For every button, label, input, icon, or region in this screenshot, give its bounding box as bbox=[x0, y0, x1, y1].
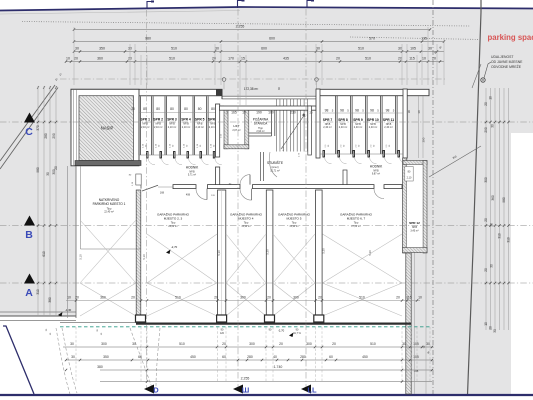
dotted setback line bbox=[22, 22, 470, 27]
svg-text:30: 30 bbox=[407, 110, 411, 114]
svg-text:20: 20 bbox=[432, 57, 436, 61]
plot boundary dashed line x=433 bbox=[432, 0, 434, 394]
svg-text:20: 20 bbox=[75, 296, 79, 300]
svg-text:3,45 m²: 3,45 m² bbox=[410, 229, 418, 232]
svg-text:30: 30 bbox=[493, 329, 497, 333]
svg-text:20: 20 bbox=[267, 296, 271, 300]
gridline B horizontal bbox=[0, 225, 533, 227]
right vertical dimension lines bbox=[485, 88, 487, 330]
leader to note text bbox=[484, 62, 491, 78]
svg-text:290: 290 bbox=[422, 137, 426, 142]
bottom-left road diagonal bbox=[3, 326, 34, 394]
svg-text:22,40 m²: 22,40 m² bbox=[104, 211, 114, 214]
svg-text:5,30: 5,30 bbox=[368, 250, 372, 256]
svg-text:30: 30 bbox=[426, 342, 430, 346]
faint parallel road line bbox=[0, 11, 240, 15]
svg-text:D: D bbox=[153, 386, 159, 395]
axis bubble east bbox=[315, 78, 319, 82]
staircase right wall bbox=[308, 106, 312, 155]
garage top wall segments bbox=[173, 185, 196, 189]
svg-text:370: 370 bbox=[36, 125, 40, 131]
room SPR12 right wall (hatched) bbox=[423, 161, 427, 254]
svg-text:parking spac: parking spac bbox=[488, 33, 533, 42]
SPR7-11 door leafs bbox=[323, 151, 325, 158]
X braces stall 2-3 bbox=[147, 234, 217, 283]
X braces stall 6-7 bbox=[323, 234, 403, 283]
building north wall west part bbox=[71, 89, 222, 95]
svg-text:98: 98 bbox=[370, 109, 374, 113]
svg-text:SPR 5: SPR 5 bbox=[195, 118, 205, 122]
dotted line right segment bbox=[350, 37, 481, 40]
svg-text:2,10 m²: 2,10 m² bbox=[195, 126, 204, 129]
svg-text:510: 510 bbox=[171, 47, 177, 51]
stair handrail curve bbox=[269, 152, 277, 177]
SPR room divider wall 2 bbox=[151, 96, 153, 155]
right retaining wall lower (hatched) bbox=[406, 253, 411, 394]
svg-text:60: 60 bbox=[222, 355, 226, 359]
elevation flag axis L bbox=[307, 1, 314, 9]
svg-text:MJESTO 4: MJESTO 4 bbox=[238, 216, 253, 220]
staircase treads bbox=[276, 111, 278, 152]
bottom navy border line bbox=[0, 394, 533, 396]
left small arrows top bbox=[37, 86, 39, 89]
small wall right corridor bbox=[343, 170, 347, 186]
svg-text:Ш: Ш bbox=[242, 386, 250, 395]
svg-text:20: 20 bbox=[489, 326, 493, 330]
axis marker A bbox=[24, 274, 35, 284]
nasip block walls bbox=[71, 89, 139, 166]
svg-text:980: 980 bbox=[145, 37, 151, 41]
svg-text:2,40 m²: 2,40 m² bbox=[339, 126, 348, 129]
gridline L vertical bbox=[305, 9, 307, 388]
svg-text:610: 610 bbox=[42, 251, 46, 257]
heavy road boundary line right bbox=[468, 0, 482, 395]
svg-text:LL: LL bbox=[307, 386, 317, 395]
svg-text:30: 30 bbox=[316, 47, 320, 51]
svg-text:2,10 m²: 2,10 m² bbox=[182, 126, 191, 129]
svg-text:510: 510 bbox=[365, 57, 371, 61]
elevation flag axis D bbox=[147, 2, 154, 10]
svg-text:10: 10 bbox=[418, 296, 422, 300]
svg-text:360: 360 bbox=[491, 195, 495, 201]
bottom dim row 2.255 bbox=[100, 381, 432, 383]
svg-text:135: 135 bbox=[421, 37, 427, 41]
svg-text:10: 10 bbox=[66, 57, 70, 61]
SPR7-11 divider wall 1 bbox=[350, 96, 352, 154]
svg-text:2,94 m²: 2,94 m² bbox=[256, 130, 264, 133]
svg-text:5,30: 5,30 bbox=[322, 248, 326, 254]
left vertical dimension lines bbox=[37, 86, 39, 316]
svg-text:5,30: 5,30 bbox=[266, 249, 270, 255]
svg-text:2,10 m²: 2,10 m² bbox=[168, 126, 177, 129]
svg-text:30: 30 bbox=[491, 124, 495, 128]
svg-text:STUBIŠTE: STUBIŠTE bbox=[267, 160, 284, 165]
svg-text:98: 98 bbox=[340, 109, 344, 113]
svg-text:300: 300 bbox=[240, 296, 246, 300]
svg-text:SPR 2: SPR 2 bbox=[153, 118, 163, 122]
svg-text:LIFT: LIFT bbox=[233, 124, 239, 128]
svg-text:SPR 10: SPR 10 bbox=[367, 118, 379, 122]
svg-text:600: 600 bbox=[269, 37, 275, 41]
gray site area: right band bbox=[407, 86, 511, 394]
svg-text:20: 20 bbox=[212, 57, 216, 61]
svg-text:80: 80 bbox=[277, 87, 281, 90]
svg-text:5,10: 5,10 bbox=[142, 254, 146, 260]
svg-text:ODVODNE MREŽE: ODVODNE MREŽE bbox=[491, 64, 522, 69]
svg-text:41,7 %: 41,7 % bbox=[293, 332, 301, 335]
diagonal plot boundary left bbox=[0, 85, 55, 161]
bottom dim row 1.740 bbox=[100, 369, 432, 371]
svg-text:280: 280 bbox=[44, 133, 48, 139]
svg-text:1.740: 1.740 bbox=[274, 365, 283, 369]
door arc stubiste (to corridor) bbox=[240, 175, 250, 185]
svg-text:408: 408 bbox=[186, 194, 191, 197]
svg-text:360: 360 bbox=[100, 296, 106, 300]
svg-text:MJESTO 6, 7: MJESTO 6, 7 bbox=[347, 216, 366, 220]
elevation flag axis S bbox=[238, 1, 245, 9]
svg-text:Tlpp: Tlpp bbox=[354, 222, 359, 224]
svg-text:80: 80 bbox=[184, 107, 188, 111]
svg-text:30: 30 bbox=[70, 342, 74, 346]
SPR12 door notch bbox=[405, 167, 413, 182]
svg-text:165: 165 bbox=[231, 110, 237, 114]
svg-text:20: 20 bbox=[484, 268, 488, 272]
svg-text:300: 300 bbox=[249, 342, 255, 346]
svg-text:20: 20 bbox=[332, 342, 336, 346]
axis marker C bbox=[24, 113, 35, 123]
svg-text:20: 20 bbox=[484, 102, 488, 106]
svg-text:105: 105 bbox=[410, 47, 416, 51]
garage wall W2 bbox=[218, 190, 226, 315]
gridline C horizontal bbox=[0, 121, 533, 123]
axis bubble west bbox=[222, 78, 226, 82]
diagonal leader top right bbox=[472, 64, 481, 88]
svg-text:280: 280 bbox=[247, 355, 253, 359]
svg-text:20: 20 bbox=[318, 296, 322, 300]
top dimension row 3 bbox=[74, 51, 444, 53]
svg-text:A: A bbox=[25, 287, 33, 299]
natkriveno boundary lines bbox=[67, 166, 69, 318]
svg-text:980: 980 bbox=[36, 167, 40, 173]
SPR7-11 divider wall 0 bbox=[335, 96, 337, 154]
SPR room divider wall 6 bbox=[206, 96, 208, 155]
svg-text:20: 20 bbox=[336, 57, 340, 61]
ramp dashed edges bbox=[56, 328, 70, 394]
svg-text:2.255: 2.255 bbox=[236, 25, 245, 29]
svg-text:9,87 m²: 9,87 m² bbox=[372, 173, 380, 176]
svg-text:300: 300 bbox=[101, 342, 107, 346]
svg-text:105: 105 bbox=[413, 342, 419, 346]
building bottom heavy edge bbox=[60, 322, 136, 324]
svg-text:290: 290 bbox=[484, 127, 488, 133]
svg-text:30: 30 bbox=[132, 342, 136, 346]
room SPR12 top wall (hatched) bbox=[403, 161, 427, 165]
svg-text:30: 30 bbox=[398, 47, 402, 51]
svg-text:NASIP: NASIP bbox=[101, 126, 114, 131]
SPR7-11 right wall bbox=[403, 89, 407, 158]
svg-text:510: 510 bbox=[169, 57, 175, 61]
svg-text:5,71 m²: 5,71 m² bbox=[188, 174, 196, 177]
svg-text:-2,70: -2,70 bbox=[171, 245, 178, 249]
svg-text:SPR 7: SPR 7 bbox=[323, 118, 333, 122]
top dim extension verticals bbox=[73, 27, 75, 85]
svg-text:98: 98 bbox=[386, 109, 390, 113]
svg-text:20: 20 bbox=[396, 296, 400, 300]
svg-text:2.255: 2.255 bbox=[241, 376, 250, 380]
SPR room divider wall 4 bbox=[178, 96, 180, 155]
bottom dim row B bbox=[66, 359, 432, 361]
facade jogs bbox=[221, 89, 223, 99]
svg-text:30: 30 bbox=[71, 355, 75, 359]
garage wall W1 (hatched) bbox=[136, 190, 141, 318]
gray site area: far right top bbox=[511, 8, 533, 133]
room SPR12 bottom wall (hatched) bbox=[403, 248, 428, 253]
svg-text:30: 30 bbox=[402, 342, 406, 346]
svg-text:Tlpp: Tlpp bbox=[171, 222, 176, 224]
svg-text:PARKIRNO MJESTO 1: PARKIRNO MJESTO 1 bbox=[93, 202, 126, 206]
svg-text:600: 600 bbox=[261, 47, 267, 51]
svg-text:30: 30 bbox=[75, 47, 79, 51]
svg-text:SPR 11: SPR 11 bbox=[383, 118, 394, 122]
garage inner dimension row bbox=[66, 300, 420, 302]
svg-text:290: 290 bbox=[52, 133, 56, 139]
svg-text:115: 115 bbox=[409, 57, 415, 61]
gridline A horizontal bbox=[0, 282, 533, 284]
driveway band lines right of building bbox=[414, 253, 416, 394]
svg-text:10: 10 bbox=[422, 57, 426, 61]
svg-text:SPR 12: SPR 12 bbox=[409, 221, 420, 225]
door arcs into garage bbox=[196, 189, 207, 200]
nasip left wall inner lines bbox=[72, 89, 74, 166]
diagonal leader 300 bbox=[429, 146, 481, 177]
staircase treads upper bbox=[276, 99, 278, 106]
svg-text:105: 105 bbox=[413, 355, 419, 359]
svg-text:300: 300 bbox=[306, 342, 312, 346]
svg-text:510: 510 bbox=[370, 342, 376, 346]
garage entry door leaf diagonal bbox=[142, 185, 158, 191]
svg-text:Tlpp: Tlpp bbox=[292, 222, 297, 224]
svg-text:510: 510 bbox=[359, 296, 365, 300]
stair lower west wall bbox=[260, 152, 262, 181]
SPR7-11 left wall bbox=[316, 89, 320, 158]
axis marker B bbox=[24, 216, 35, 226]
top dimension row 4 bbox=[66, 61, 444, 63]
svg-text:310: 310 bbox=[507, 237, 511, 243]
svg-text:380: 380 bbox=[97, 365, 103, 369]
svg-text:168: 168 bbox=[160, 192, 165, 195]
right-of-building vertical dim lines bbox=[418, 96, 420, 158]
svg-text:450: 450 bbox=[190, 355, 196, 359]
right retaining wall upper (hatched) bbox=[403, 158, 407, 253]
svg-text:10: 10 bbox=[489, 96, 493, 100]
svg-text:350: 350 bbox=[99, 47, 105, 51]
svg-text:20: 20 bbox=[54, 166, 58, 170]
svg-text:510: 510 bbox=[175, 296, 181, 300]
SPR7-11 divider wall 3 bbox=[380, 96, 382, 154]
svg-text:280: 280 bbox=[300, 355, 306, 359]
svg-text:2,10 m²: 2,10 m² bbox=[141, 126, 150, 129]
gridline D vertical bbox=[146, 10, 148, 388]
svg-text:30: 30 bbox=[417, 110, 421, 114]
svg-text:20: 20 bbox=[131, 296, 135, 300]
svg-text:230: 230 bbox=[290, 110, 296, 114]
svg-text:2,07 m²: 2,07 m² bbox=[232, 129, 240, 132]
gridline S vertical bbox=[237, 9, 239, 388]
svg-text:350: 350 bbox=[103, 355, 109, 359]
svg-text:HODNIK: HODNIK bbox=[186, 166, 199, 170]
svg-text:B: B bbox=[25, 229, 33, 241]
svg-text:80: 80 bbox=[156, 107, 160, 111]
facade alignment dash line bbox=[60, 78, 446, 80]
gray site area: left band bbox=[0, 88, 76, 316]
svg-text:MJESTO 2, 3: MJESTO 2, 3 bbox=[164, 216, 183, 220]
axis marker Ш bottom bbox=[233, 385, 243, 394]
svg-text:15: 15 bbox=[241, 57, 245, 61]
bottom teal dashed line bbox=[60, 326, 430, 328]
nasip bottom wall (solid) bbox=[75, 161, 141, 166]
SPR7-11 bottom edge bbox=[320, 153, 403, 155]
svg-text:40: 40 bbox=[273, 355, 277, 359]
svg-text:2,40 m²: 2,40 m² bbox=[323, 126, 332, 129]
column footings bbox=[136, 315, 146, 322]
room SPR12 interior bbox=[407, 165, 423, 248]
bottom extension verticals bbox=[75, 327, 77, 382]
left plot bottom boundary lines bbox=[0, 311, 76, 313]
svg-text:570: 570 bbox=[369, 37, 375, 41]
road edge (navy top line) bbox=[0, 7, 533, 11]
gray site area: top band bbox=[0, 7, 533, 96]
svg-text:20: 20 bbox=[222, 342, 226, 346]
svg-text:2,40 m²: 2,40 m² bbox=[354, 126, 363, 129]
svg-text:190: 190 bbox=[256, 110, 262, 114]
svg-text:510: 510 bbox=[179, 342, 185, 346]
svg-text:100: 100 bbox=[268, 110, 274, 114]
X braces stall 5 bbox=[273, 234, 315, 283]
svg-text:5,30: 5,30 bbox=[217, 250, 221, 256]
wall corner dark block bbox=[220, 106, 225, 110]
svg-text:C: C bbox=[25, 126, 33, 138]
svg-text:120: 120 bbox=[220, 332, 225, 335]
svg-text:980: 980 bbox=[502, 197, 506, 203]
svg-text:80: 80 bbox=[198, 107, 202, 111]
svg-text:310: 310 bbox=[498, 233, 502, 239]
survey circle marker bbox=[481, 78, 485, 82]
axis marker LL bottom bbox=[301, 385, 311, 394]
svg-text:115: 115 bbox=[406, 296, 412, 300]
svg-text:MJESTO 5: MJESTO 5 bbox=[286, 216, 301, 220]
svg-text:12,71 m²: 12,71 m² bbox=[270, 169, 280, 172]
svg-text:SPR 3: SPR 3 bbox=[167, 118, 177, 122]
recessed facade middle bbox=[222, 96, 317, 99]
svg-text:SPR 4: SPR 4 bbox=[181, 118, 191, 122]
X braces stall 4 bbox=[226, 234, 266, 283]
svg-text:80: 80 bbox=[170, 107, 174, 111]
SPR room divider wall 3 bbox=[164, 96, 166, 155]
building north wall east part bbox=[317, 89, 430, 95]
svg-text:HODNIK: HODNIK bbox=[370, 165, 383, 169]
svg-text:510: 510 bbox=[358, 47, 364, 51]
svg-text:20: 20 bbox=[279, 342, 283, 346]
svg-text:2,40 m²: 2,40 m² bbox=[369, 126, 378, 129]
top dimension row 2 bbox=[74, 41, 444, 43]
garage wall W3 bbox=[266, 190, 273, 315]
svg-text:300: 300 bbox=[484, 177, 488, 183]
SPR1-6 block top line bbox=[139, 95, 220, 97]
svg-text:172,38 m²: 172,38 m² bbox=[244, 87, 258, 91]
lift shaft walls bbox=[224, 110, 228, 149]
axis marker D bottom bbox=[144, 385, 154, 394]
svg-text:310: 310 bbox=[36, 289, 40, 295]
garage wall W4 bbox=[316, 190, 323, 315]
north wall pier block bbox=[216, 90, 222, 96]
stair direction arrow bbox=[281, 114, 305, 149]
svg-text:20: 20 bbox=[214, 296, 218, 300]
svg-text:2,10 m²: 2,10 m² bbox=[154, 126, 163, 129]
svg-text:30: 30 bbox=[46, 172, 50, 176]
svg-text:60: 60 bbox=[138, 355, 142, 359]
svg-text:2,10: 2,10 bbox=[407, 177, 412, 180]
X brace natkriveno bbox=[80, 220, 136, 283]
svg-text:15: 15 bbox=[242, 110, 246, 114]
svg-text:30: 30 bbox=[131, 107, 135, 111]
central block left wall bbox=[216, 104, 220, 157]
svg-text:10: 10 bbox=[67, 296, 71, 300]
svg-text:80: 80 bbox=[211, 107, 215, 111]
svg-text:Tlpp: Tlpp bbox=[244, 222, 249, 224]
svg-text:98: 98 bbox=[355, 109, 359, 113]
nasip hatched fill bbox=[79, 96, 134, 161]
svg-text:30: 30 bbox=[428, 47, 432, 51]
SPR room divider wall 5 bbox=[192, 96, 194, 155]
svg-text:-2,70: -2,70 bbox=[278, 329, 285, 333]
svg-text:300: 300 bbox=[293, 296, 299, 300]
svg-text:30: 30 bbox=[215, 47, 219, 51]
SPR7-11 divider wall 2 bbox=[365, 96, 367, 154]
svg-text:360: 360 bbox=[97, 57, 103, 61]
SPR1-6 door leafs bbox=[147, 152, 149, 159]
SPR7-11 divider wall 4 bbox=[395, 96, 397, 154]
svg-text:170: 170 bbox=[228, 57, 234, 61]
svg-text:5,10: 5,10 bbox=[79, 254, 83, 260]
svg-text:450: 450 bbox=[362, 355, 368, 359]
SPR1-6 bottom edge line bbox=[139, 154, 216, 156]
fire room walls bbox=[249, 109, 275, 111]
bottom dim row A bbox=[140, 346, 432, 348]
svg-text:SPR 8: SPR 8 bbox=[338, 118, 348, 122]
W1 door notch to natkriveno bbox=[136, 174, 141, 185]
svg-text:98: 98 bbox=[325, 109, 329, 113]
svg-text:380: 380 bbox=[48, 297, 52, 303]
central block top wall bbox=[220, 106, 317, 110]
svg-text:30: 30 bbox=[490, 264, 494, 268]
svg-text:20: 20 bbox=[74, 57, 78, 61]
svg-text:435: 435 bbox=[283, 57, 289, 61]
svg-text:SPR 1: SPR 1 bbox=[140, 118, 150, 122]
svg-text:60: 60 bbox=[329, 355, 333, 359]
svg-text:10: 10 bbox=[484, 322, 488, 326]
svg-text:UDALJENOST: UDALJENOST bbox=[491, 55, 513, 59]
svg-text:2,40 m²: 2,40 m² bbox=[384, 126, 393, 129]
SPR room divider wall 1 bbox=[138, 96, 140, 155]
top dimension row 1 (total) bbox=[74, 29, 430, 31]
svg-text:20: 20 bbox=[309, 110, 313, 114]
svg-text:20: 20 bbox=[398, 57, 402, 61]
svg-text:-1,30: -1,30 bbox=[65, 308, 72, 312]
svg-text:20: 20 bbox=[484, 218, 488, 222]
svg-text:SPR 9: SPR 9 bbox=[353, 118, 363, 122]
svg-text:OD JAVNE MJESNE: OD JAVNE MJESNE bbox=[491, 60, 523, 64]
